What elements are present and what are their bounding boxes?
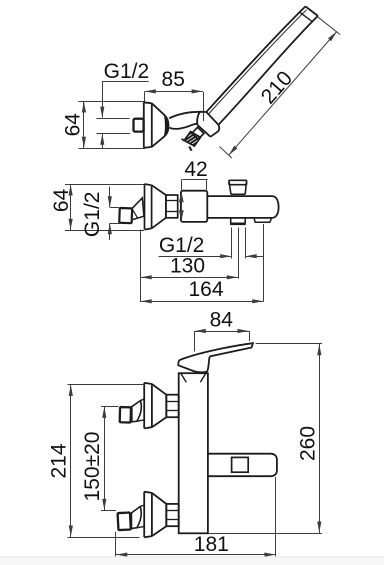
svg-text:164: 164 [188, 278, 223, 301]
svg-text:42: 42 [184, 158, 207, 181]
svg-text:150±20: 150±20 [81, 432, 104, 502]
svg-text:260: 260 [296, 426, 319, 461]
svg-text:64: 64 [50, 188, 73, 212]
svg-text:G1/2: G1/2 [81, 192, 104, 238]
svg-text:181: 181 [194, 533, 229, 556]
svg-text:85: 85 [162, 68, 185, 91]
svg-text:214: 214 [47, 443, 70, 478]
svg-text:64: 64 [62, 113, 85, 137]
svg-text:G1/2: G1/2 [104, 60, 150, 83]
svg-text:84: 84 [210, 309, 234, 332]
svg-text:130: 130 [170, 254, 205, 277]
